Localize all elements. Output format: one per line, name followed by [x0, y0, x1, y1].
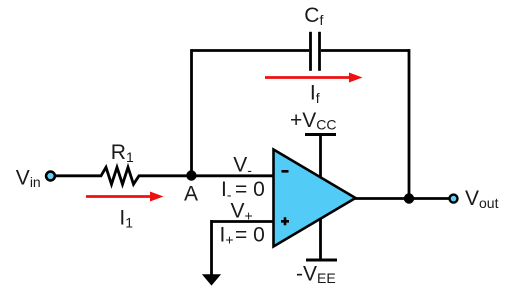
svg-text:A: A — [184, 183, 198, 206]
